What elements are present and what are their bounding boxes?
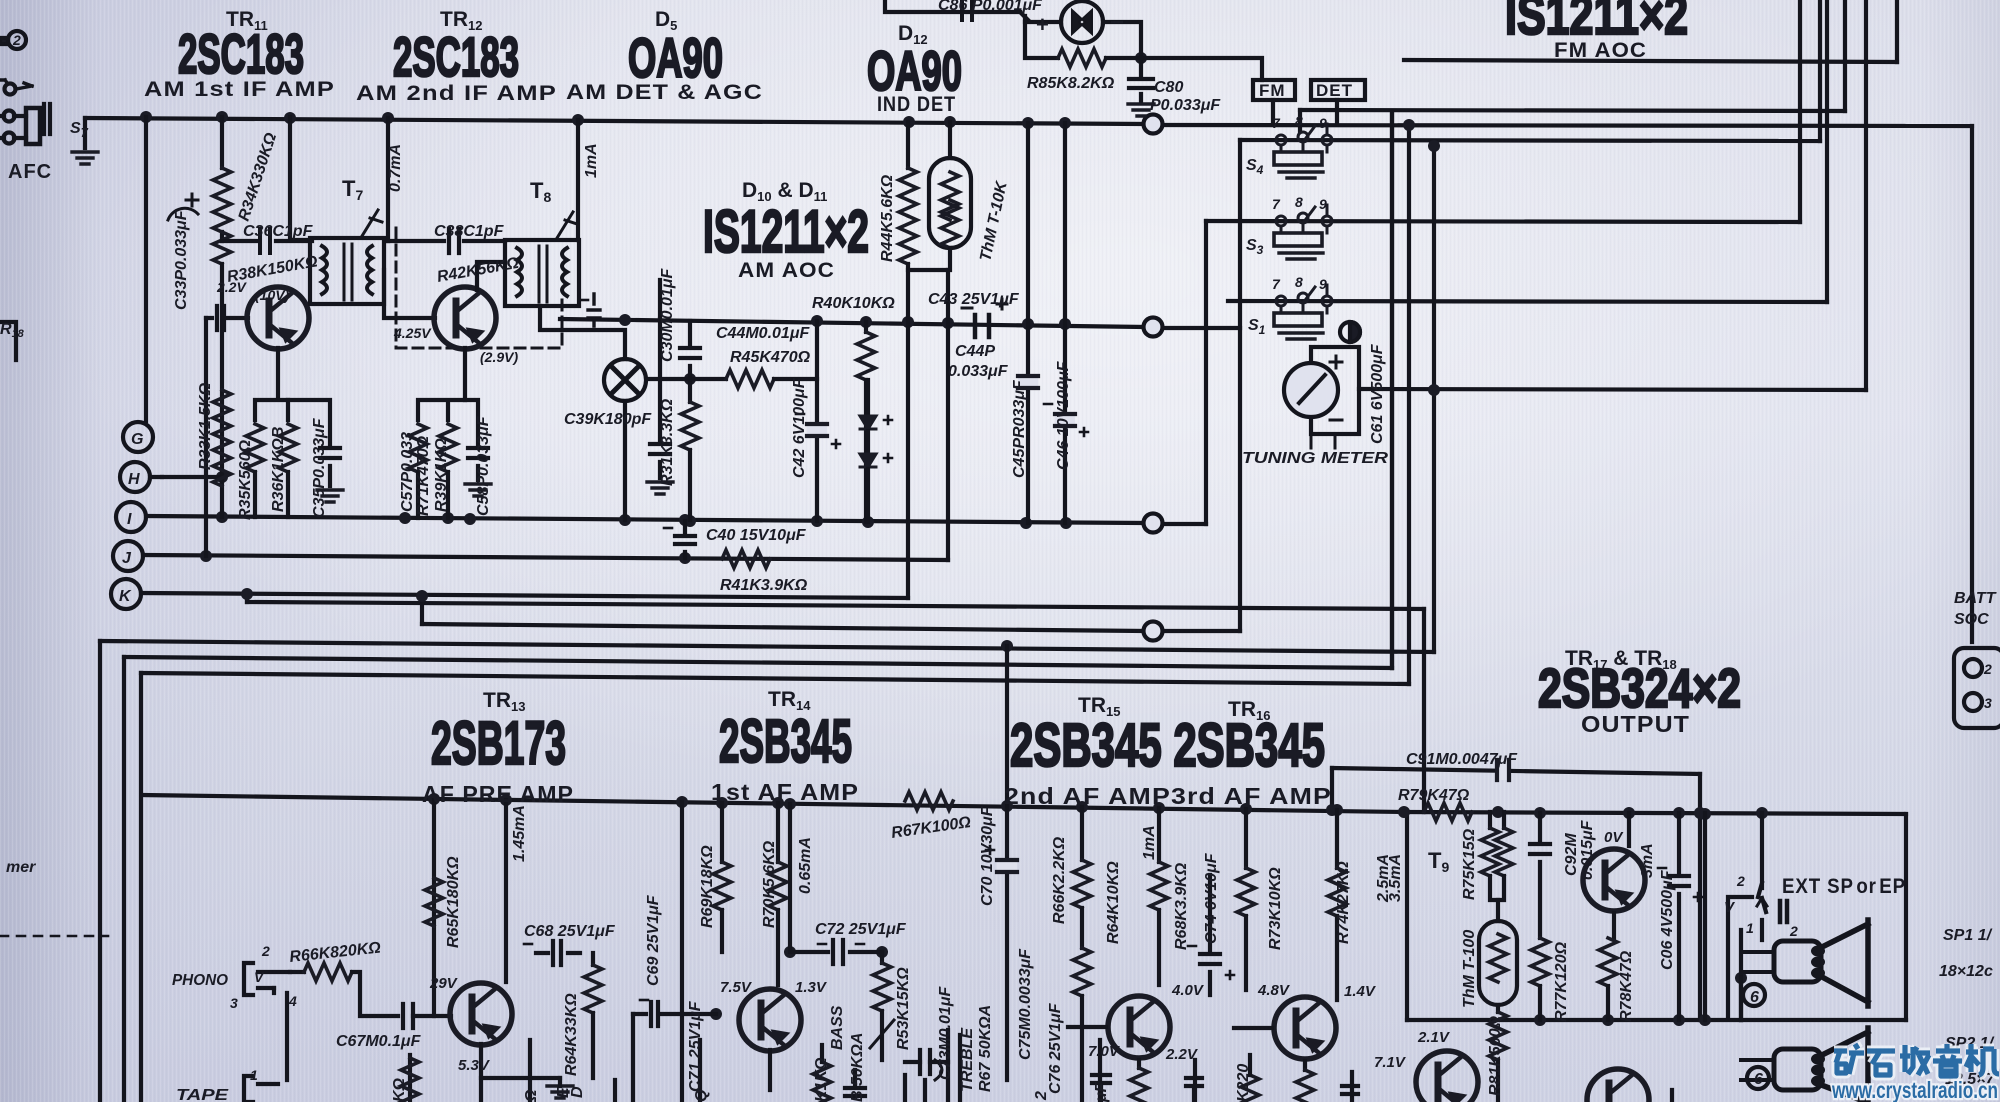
wire output box left vertical <box>1405 812 1409 1020</box>
svg-text:C44M0.01μF: C44M0.01μF <box>716 325 810 342</box>
resistor R75 pair vertical <box>1481 812 1513 900</box>
wire AGC line 2 <box>560 319 1143 327</box>
capacitor C70 on x1007 <box>986 846 1017 874</box>
svg-text:C80: C80 <box>1154 79 1183 96</box>
wire TR16 base <box>1234 1026 1272 1030</box>
svg-text:2nd AF AMP3rd AF AMP: 2nd AF AMP3rd AF AMP <box>1004 783 1332 809</box>
svg-text:1mA: 1mA <box>1141 825 1158 860</box>
wire border middle right vertical up <box>1390 112 1394 668</box>
svg-text:R75K15Ω: R75K15Ω <box>1461 828 1478 900</box>
svg-text:T9: T9 <box>1428 848 1449 875</box>
terminal J <box>113 541 143 571</box>
svg-text:7.0V: 7.0V <box>1088 1043 1121 1060</box>
svg-text:C39K180pF: C39K180pF <box>564 411 652 428</box>
terminal K <box>111 579 141 609</box>
svg-text:S4: S4 <box>1246 157 1264 177</box>
resistor R44 56K on x908 <box>899 122 917 598</box>
svg-text:−: − <box>1110 9 1125 36</box>
capacitor C74 6V10 <box>1188 875 1234 995</box>
svg-text:1: 1 <box>250 1067 258 1083</box>
switch S3 <box>1274 205 1332 259</box>
svg-text:BASS: BASS <box>829 1005 846 1050</box>
svg-text:C44P: C44P <box>955 343 995 360</box>
transistor TR13 <box>450 983 512 1045</box>
wire TR12 emitter cluster <box>418 348 465 420</box>
resistor R81 560 vertical <box>1489 1012 1507 1102</box>
wire S1 row line <box>1228 301 1827 302</box>
svg-text:R53K15KΩ: R53K15KΩ <box>895 967 912 1050</box>
svg-text:R44K5.6KΩ: R44K5.6KΩ <box>879 174 896 262</box>
dashed lead left <box>0 935 108 938</box>
svg-text:V: V <box>1724 899 1736 916</box>
transistor TR11 <box>247 287 309 349</box>
svg-text:R34K330KΩ: R34K330KΩ <box>236 130 281 223</box>
wire TR17 collector feed <box>1627 813 1631 846</box>
speaker SP1 <box>1741 920 1868 1006</box>
antenna arrow stub <box>0 80 32 95</box>
svg-text:2SC183: 2SC183 <box>178 22 304 85</box>
resistor R71 3.9K vertical <box>1150 808 1168 985</box>
svg-text:FM: FM <box>1259 81 1286 100</box>
ground bottom partial <box>547 1078 573 1098</box>
node junction dots <box>140 52 1768 1026</box>
resistor R36 1K vertical <box>279 424 297 517</box>
capacitor C71 series <box>633 1000 716 1102</box>
wire bottom partial stubs <box>615 1075 1672 1102</box>
svg-text:C92M: C92M <box>1563 833 1580 876</box>
wire speaker feeds <box>1741 920 1762 1020</box>
svg-text:C86 P0.001μF: C86 P0.001μF <box>938 0 1043 14</box>
wire top bus right of terminal <box>1163 125 1972 126</box>
svg-text:1st AF AMP: 1st AF AMP <box>711 779 859 805</box>
svg-text:DET: DET <box>1316 81 1353 100</box>
svg-text:S3: S3 <box>1246 237 1264 257</box>
capacitor C42 on x817 <box>796 414 840 448</box>
svg-text:2: 2 <box>1736 873 1745 889</box>
capacitor line2 left cap <box>580 294 600 326</box>
wire TR13 collector feed <box>504 800 508 982</box>
svg-text:C74 6V10μF: C74 6V10μF <box>1203 852 1220 944</box>
svg-text:FM AOC: FM AOC <box>1554 39 1647 62</box>
svg-text:8: 8 <box>1295 113 1303 129</box>
jack PHONO <box>244 963 290 995</box>
svg-text:C42 6V100μF: C42 6V100μF <box>791 377 808 478</box>
wire x578 bus to T8 <box>576 120 580 240</box>
switch S1 <box>1274 285 1332 339</box>
capacitor C35 bypass <box>288 400 343 502</box>
wire TR14 emitter <box>768 1050 772 1090</box>
transformer T8 <box>505 212 579 306</box>
wire vertical x1332 <box>1330 768 1334 810</box>
capacitor C36 1pF <box>222 229 312 253</box>
wire FM AOC top line <box>1404 60 1897 62</box>
svg-text:TUNING METER: TUNING METER <box>1242 450 1389 467</box>
svg-text:TREBLE: TREBLE <box>959 1027 976 1092</box>
wire x388 from bus <box>386 118 390 241</box>
watermark crystalradio <box>1831 1044 1999 1102</box>
svg-text:C70 10V30μF: C70 10V30μF <box>979 805 996 906</box>
capacitor C45 M0.01 <box>680 321 700 379</box>
thermistor ThM T-10K <box>908 122 971 270</box>
svg-text:1.45mA: 1.45mA <box>511 805 528 862</box>
node open terminal circles column <box>1144 115 1163 641</box>
svg-text:3: 3 <box>230 995 238 1011</box>
wire G vertical drop <box>144 117 148 421</box>
svg-text:R65K180KΩ: R65K180KΩ <box>445 856 462 948</box>
svg-text:2.1V: 2.1V <box>1417 1029 1451 1046</box>
svg-text:2: 2 <box>1983 661 1992 677</box>
wire long vertical x1240 <box>1238 140 1242 631</box>
svg-text:2.5mA: 2.5mA <box>1375 854 1392 903</box>
wire meter row vertical <box>1864 0 1868 390</box>
resistor R53 15K bass pot <box>870 952 894 1060</box>
wire center vertical x1007 <box>1005 646 1009 1080</box>
resistor R35 560 vertical <box>246 424 264 517</box>
transistor TR15 <box>1108 996 1170 1058</box>
svg-text:S1: S1 <box>1248 317 1266 337</box>
wire TR12 collector to T8 <box>477 262 505 290</box>
svg-text:R67K100Ω: R67K100Ω <box>890 814 972 842</box>
resistor R64 10K lower vertical <box>1073 948 1091 1102</box>
resistor R34 330K vertical <box>213 117 231 264</box>
svg-text:R39K1KΩ: R39K1KΩ <box>433 438 450 512</box>
wire left edge stub R18 <box>0 322 16 360</box>
wire top AGC bus <box>85 118 1143 124</box>
svg-text:C06 4V500μF: C06 4V500μF <box>1659 869 1676 970</box>
svg-text:R66K820KΩ: R66K820KΩ <box>289 939 382 966</box>
svg-text:7: 7 <box>1272 196 1281 212</box>
wire T7 secondary to TR12 base <box>384 270 435 318</box>
svg-text:R66K2.2KΩ: R66K2.2KΩ <box>1051 836 1068 924</box>
wire border outer right vertical up <box>1432 146 1436 652</box>
resistor R67 100 on bus <box>905 792 953 810</box>
wire S4 row vertical <box>1818 0 1822 141</box>
terminal G <box>123 422 153 452</box>
svg-text:C71 25V1μF: C71 25V1μF <box>687 1000 704 1092</box>
svg-text:7: 7 <box>1272 115 1281 131</box>
wire output rail <box>1404 812 1906 814</box>
svg-text:D: D <box>569 1086 586 1098</box>
svg-text:AM AOC: AM AOC <box>738 259 835 282</box>
svg-text:R41K3.9KΩ: R41K3.9KΩ <box>720 577 808 594</box>
svg-text:KΩ: KΩ <box>391 1077 408 1102</box>
wire output box right vertical <box>1904 814 1908 1020</box>
wire border outer <box>100 641 1434 652</box>
svg-text:2: 2 <box>261 943 270 959</box>
svg-text:(2.9V): (2.9V) <box>480 349 518 365</box>
wire border inner <box>141 673 1409 684</box>
svg-text:R64K10KΩ: R64K10KΩ <box>1105 861 1122 944</box>
transistor TR16 <box>1274 997 1336 1059</box>
jack TAPE <box>244 1076 278 1102</box>
node circled 6 lower <box>1747 1067 1769 1089</box>
svg-text:(10V): (10V) <box>255 287 290 303</box>
svg-text:P0.033μF: P0.033μF <box>1150 97 1221 114</box>
resistor R73 10K vertical <box>1237 809 1255 990</box>
wire S4 row line <box>1240 140 1820 141</box>
diode D11 <box>860 454 892 522</box>
svg-text:C72 25V1μF: C72 25V1μF <box>815 921 907 938</box>
svg-text:BATT: BATT <box>1954 590 1997 607</box>
svg-text:2SB345: 2SB345 <box>719 707 852 775</box>
svg-text:K: K <box>119 588 132 605</box>
jack EXT SP <box>1728 813 1787 1020</box>
svg-text:R69K18KΩ: R69K18KΩ <box>699 845 716 928</box>
svg-text:AM 2nd IF AMP: AM 2nd IF AMP <box>356 82 557 105</box>
wire TR13 emitter <box>481 1044 560 1078</box>
svg-text:0.65mA: 0.65mA <box>797 837 814 894</box>
svg-text:R70K5.6KΩ: R70K5.6KΩ <box>761 840 778 928</box>
varicap D12 pair <box>1025 1 1141 58</box>
svg-text:G: G <box>131 431 143 448</box>
svg-text:1mA: 1mA <box>583 143 600 178</box>
svg-text:C43 25V1μF: C43 25V1μF <box>928 291 1020 308</box>
wire output box bottom <box>1407 1018 1906 1022</box>
capacitor C68 25V1 <box>524 941 580 965</box>
svg-text:R40K10KΩ: R40K10KΩ <box>812 295 895 312</box>
svg-text:2SB173: 2SB173 <box>431 709 566 777</box>
wire TR15 emitter resistor <box>1130 1060 1148 1102</box>
svg-text:C57P0.033: C57P0.033 <box>399 432 416 512</box>
transistor TR14 <box>739 989 801 1051</box>
svg-text:2: 2 <box>1789 923 1798 939</box>
wire R65 branch <box>432 799 436 1016</box>
wire line y626 <box>422 624 1143 631</box>
wire bus K <box>141 593 908 598</box>
wire D5 area riser <box>658 280 662 319</box>
wire border middle left vertical <box>122 657 126 1102</box>
svg-text:2SB324×2: 2SB324×2 <box>1538 657 1741 719</box>
wire DET row line <box>1300 110 1845 111</box>
capacitor C73 treble <box>905 1050 948 1074</box>
svg-text:R73K10KΩ: R73K10KΩ <box>1267 867 1284 950</box>
wire border outer left vertical <box>98 641 102 1102</box>
wire bottom main bus <box>142 795 1404 812</box>
svg-text:C33P0.033μF: C33P0.033μF <box>173 209 190 310</box>
transistor TR phase partial bottom <box>1416 1051 1478 1102</box>
wire TR11 emitter down <box>255 348 288 420</box>
svg-text:2SB345 2SB345: 2SB345 2SB345 <box>1010 711 1325 779</box>
svg-text:R68K3.9KΩ: R68K3.9KΩ <box>1173 862 1190 950</box>
wire FM box stub <box>1271 100 1275 122</box>
svg-text:C30M0.01μF: C30M0.01μF <box>659 268 676 362</box>
transformer T7 <box>310 210 384 304</box>
svg-text:R31K3.3KΩ: R31K3.3KΩ <box>659 398 676 486</box>
svg-text:R35K560Ω: R35K560Ω <box>237 439 254 520</box>
svg-text:29V: 29V <box>429 975 459 992</box>
transistor TR17 output <box>1583 849 1645 911</box>
capacitor C44 on x1028 <box>1018 374 1038 390</box>
svg-text:H: H <box>128 471 140 488</box>
resistor R77 120 vertical <box>1531 938 1549 1020</box>
svg-text:9: 9 <box>1319 196 1327 212</box>
wire x1065 vertical <box>1063 123 1067 523</box>
svg-text:5.3V: 5.3V <box>458 1057 491 1074</box>
resistor R78 47 vertical <box>1599 938 1617 1020</box>
partial components bottom strip <box>401 1035 1358 1102</box>
svg-text:R36K1KΩB: R36K1KΩB <box>270 427 287 512</box>
svg-text:C67M0.1μF: C67M0.1μF <box>336 1033 422 1050</box>
svg-text:2.2V: 2.2V <box>216 279 247 295</box>
svg-text:C58P0.033μF: C58P0.033μF <box>475 415 492 516</box>
svg-text:K1KΩ: K1KΩ <box>813 1057 830 1102</box>
svg-text:3: 3 <box>1984 695 1992 711</box>
resistor R85 8.2K <box>1025 16 1262 80</box>
svg-text:4.0V: 4.0V <box>1171 982 1205 999</box>
partial arc bottom-left of T6 <box>168 194 198 220</box>
resistor R69 18K vertical <box>713 803 731 952</box>
capacitor C33 input <box>206 306 248 556</box>
wire vertical x422 K to y626 <box>420 597 424 624</box>
wire vertical to S3 row <box>1204 221 1208 524</box>
svg-text:Ω: Ω <box>523 1089 540 1102</box>
svg-text:K220: K220 <box>1235 1064 1252 1102</box>
svg-text:18×12c: 18×12c <box>1939 963 1993 980</box>
svg-text:6: 6 <box>1750 989 1759 1006</box>
svg-text:3mA: 3mA <box>1639 843 1656 878</box>
svg-text:4.25V: 4.25V <box>393 325 432 341</box>
capacitor C46 on x1065 <box>1044 404 1088 436</box>
terminal H <box>120 462 162 492</box>
wire DET row vertical <box>1843 0 1847 111</box>
label box FM <box>1253 80 1295 100</box>
capacitor C80 with ground <box>1128 58 1154 116</box>
svg-text:4.8V: 4.8V <box>1257 982 1291 999</box>
wire x817 vertical <box>815 321 819 521</box>
resistor R31 3.3K vertical <box>647 379 699 520</box>
svg-text:1.4V: 1.4V <box>1344 983 1377 1000</box>
svg-text:J: J <box>122 550 132 567</box>
svg-text:www.crystalradio.cn: www.crystalradio.cn <box>1831 1077 1998 1102</box>
wire x948 therm to J <box>946 270 950 560</box>
wire TR16 emitter resistor <box>1296 1061 1314 1102</box>
transistor TR12 <box>434 287 496 349</box>
svg-text:R74K27KΩ: R74K27KΩ <box>1335 861 1352 944</box>
svg-text:9: 9 <box>1319 115 1327 131</box>
wire TR11 collector to T7 <box>290 117 310 240</box>
svg-text:IS1211×2: IS1211×2 <box>703 198 869 265</box>
wire output top line y770 <box>1332 768 1700 774</box>
svg-text:C61 6V500μF: C61 6V500μF <box>1369 343 1386 444</box>
svg-text:C40 15V10μF: C40 15V10μF <box>706 527 807 544</box>
capacitor C06 4V500 <box>1658 813 1702 1020</box>
wire phono to tape vertical <box>285 993 289 1080</box>
thermistor ThM T-100 <box>1479 900 1517 1012</box>
node circled 2 <box>8 31 26 49</box>
wire border inner left vertical <box>139 673 143 1102</box>
svg-text:+: + <box>1036 12 1050 37</box>
diode D10 <box>860 380 892 452</box>
svg-text:7: 7 <box>1272 276 1281 292</box>
capacitor C92 M0.015 <box>1530 813 1550 938</box>
svg-text:6: 6 <box>1754 1071 1763 1088</box>
svg-text:AFC: AFC <box>8 161 52 183</box>
svg-text:0.033μF: 0.033μF <box>948 363 1009 380</box>
wire DET row stub to S4 <box>1298 110 1302 131</box>
wire bus J <box>143 555 948 560</box>
label partial bottom texts <box>391 1029 1451 1102</box>
resistor R66b 2.2K vertical <box>1073 807 1091 948</box>
wire TR15 base <box>1068 1025 1106 1029</box>
svg-text:C69 25V1μF: C69 25V1μF <box>645 894 662 986</box>
wire border middle <box>124 657 1392 668</box>
resistor R41 3.9K on J <box>722 550 770 568</box>
svg-text:C91M0.0047μF: C91M0.0047μF <box>1406 751 1518 768</box>
svg-text:C35P0.033μF: C35P0.033μF <box>311 417 328 518</box>
antenna input stubs top-left <box>0 31 26 49</box>
svg-text:SOC: SOC <box>1954 611 1989 628</box>
svg-text:C73M0.01μF: C73M0.01μF <box>937 986 954 1080</box>
svg-text:AF PRE AMP: AF PRE AMP <box>422 781 574 807</box>
svg-text:0.015μF: 0.015μF <box>1579 819 1596 880</box>
svg-text:C46 10V100μF: C46 10V100μF <box>1055 360 1072 470</box>
svg-text:ThM T-10K: ThM T-10K <box>977 179 1011 263</box>
capacitor C40 15V10 <box>664 521 695 558</box>
svg-text:R71K470Ω: R71K470Ω <box>415 435 432 516</box>
node circled 6 upper <box>1743 984 1765 1006</box>
wire D5 down to bus I <box>623 401 627 520</box>
resistor R45 470 <box>690 370 817 388</box>
svg-text:R64K33KΩ: R64K33KΩ <box>563 993 580 1076</box>
capacitor C58 bypass <box>465 400 491 496</box>
svg-text:7.1V: 7.1V <box>1374 1054 1407 1071</box>
svg-text:EXT SP or EP: EXT SP or EP <box>1782 875 1906 898</box>
wire S3 row line <box>1206 221 1800 222</box>
wire C72 row <box>790 804 882 952</box>
resistor R79 47 on rail <box>1424 803 1472 821</box>
svg-text:R77K120Ω: R77K120Ω <box>1553 941 1570 1022</box>
wire H line <box>162 475 222 479</box>
svg-text:2: 2 <box>12 32 21 48</box>
wire border inner right vertical up <box>1407 126 1411 684</box>
svg-text:C36C1pF: C36C1pF <box>243 223 314 240</box>
capacitor C38 1pF <box>388 229 505 253</box>
svg-text:R67 50KΩA: R67 50KΩA <box>977 1005 994 1092</box>
wire battery feed vertical <box>1970 126 1974 642</box>
resistor R66 820K <box>290 963 398 1016</box>
wire line2 right stub <box>1163 326 1240 330</box>
wire x222 down to bus I <box>220 264 224 517</box>
speaker SP2 <box>1741 1028 1868 1102</box>
svg-text:2.2V: 2.2V <box>1165 1046 1199 1063</box>
capacitor C86 top edge box <box>885 0 1028 20</box>
wire T8 to D5 <box>540 306 625 359</box>
wire bus I <box>146 516 1143 523</box>
resistor R65 180K vertical <box>425 878 443 926</box>
svg-text:IND DET: IND DET <box>877 93 956 116</box>
diode D5 circle <box>604 359 646 401</box>
tuning meter <box>1284 347 1359 448</box>
svg-text:R45K470Ω: R45K470Ω <box>730 349 811 366</box>
wire vertical x247 K to y605 <box>245 595 249 602</box>
svg-text:0V: 0V <box>1604 829 1624 846</box>
svg-text:8: 8 <box>1295 274 1303 290</box>
svg-text:R85K8.2KΩ: R85K8.2KΩ <box>1027 75 1115 92</box>
svg-text:C75M0.0033μF: C75M0.0033μF <box>1017 948 1034 1060</box>
terminal I <box>116 502 146 532</box>
svg-text:T7: T7 <box>342 176 363 203</box>
resistor R68 33K vertical <box>584 953 602 1078</box>
svg-text:mer: mer <box>6 859 36 876</box>
resistor R39 1K vertical <box>439 424 457 518</box>
svg-text:R78K47Ω: R78K47Ω <box>1618 950 1635 1022</box>
switch S4 <box>1274 124 1332 178</box>
resistor R40 10K <box>857 322 875 522</box>
svg-text:OA90: OA90 <box>628 26 723 89</box>
svg-text:1.3V: 1.3V <box>795 979 828 996</box>
svg-text:8: 8 <box>1295 194 1303 210</box>
svg-text:C68 25V1μF: C68 25V1μF <box>524 923 616 940</box>
